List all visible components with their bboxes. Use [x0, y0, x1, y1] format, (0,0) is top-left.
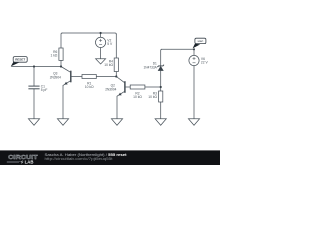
- wire C1 bottom to ground: [33, 89, 35, 119]
- ground under Q3 emitter: [57, 119, 68, 126]
- resistor R1: [82, 75, 96, 89]
- flag RESET: [11, 57, 27, 67]
- resistor R6: [51, 48, 64, 60]
- resistor R2: [130, 85, 145, 99]
- node junction R2/R3/D1: [160, 86, 162, 88]
- wire Q2 emitter to ground: [116, 96, 118, 119]
- node junction under R6: [60, 65, 62, 67]
- wire into V6 top: [193, 50, 195, 56]
- transistor Q2: [105, 77, 130, 97]
- svg-text:1 kΩ: 1 kΩ: [51, 53, 58, 57]
- wire D1 cathode up: [161, 49, 162, 65]
- wire top rail: [62, 33, 116, 34]
- svg-text:start: start: [197, 39, 203, 43]
- svg-text:2N3904: 2N3904: [105, 88, 116, 92]
- node junction under R4: [115, 75, 117, 77]
- wire R2 right to node: [145, 86, 161, 88]
- svg-text:2N3904: 2N3904: [50, 75, 61, 79]
- svg-text:10 kΩ: 10 kΩ: [85, 85, 94, 89]
- svg-text:http://circuitlab.com/c/7pjt5e: http://circuitlab.com/c/7pjt5euq55t: [45, 157, 113, 161]
- wire V2 bottom to ground: [100, 48, 102, 59]
- svg-text:1N4733A: 1N4733A: [144, 65, 158, 69]
- wire node to D1 anode: [160, 71, 162, 87]
- wire RESET net horizontal: [12, 66, 62, 68]
- wire below R4 to node: [115, 72, 117, 77]
- transistor Q3: [50, 67, 82, 86]
- wire V6 bottom to ground: [193, 66, 195, 119]
- wire top right horizontal: [162, 49, 195, 50]
- capacitor C1: [28, 85, 47, 92]
- node junction V2 at top rail: [100, 32, 102, 34]
- wire V2 top stub: [100, 33, 102, 37]
- voltage source V6: [189, 55, 209, 65]
- svg-text:RESET: RESET: [15, 58, 25, 62]
- footer logo squiggle lines: [7, 161, 22, 162]
- resistor R3: [148, 91, 163, 102]
- flag start: [193, 38, 206, 48]
- wire below R6: [60, 60, 62, 66]
- ground under C1: [28, 119, 39, 126]
- voltage source V2: [96, 37, 114, 47]
- svg-text:5 pF: 5 pF: [41, 88, 48, 92]
- footer logo bolt: [21, 160, 24, 165]
- wire node to R3 top: [160, 87, 162, 91]
- ground under Q2 emitter: [111, 119, 122, 126]
- wire C1 top: [33, 67, 35, 87]
- svg-text:10 kΩ: 10 kΩ: [104, 63, 113, 67]
- resistor R4: [104, 58, 118, 72]
- node junction on RESET wire at C1: [33, 65, 35, 67]
- wire right rail above R4: [115, 34, 117, 58]
- node junction top right corner: [193, 48, 195, 50]
- wire Q3 emitter to ground: [62, 85, 64, 118]
- svg-text:CIRCUIT: CIRCUIT: [8, 155, 38, 161]
- footer bar: [0, 150, 220, 165]
- svg-text:10 kΩ: 10 kΩ: [133, 95, 142, 99]
- ground under V6: [188, 119, 199, 126]
- ground under V2: [96, 59, 106, 64]
- wire left rail above R6: [61, 33, 62, 48]
- zener diode D1: [144, 62, 164, 71]
- svg-text:22 V: 22 V: [201, 61, 209, 65]
- svg-text:5 V: 5 V: [107, 42, 113, 46]
- svg-text:10 kΩ: 10 kΩ: [148, 95, 157, 99]
- ground under R3: [155, 119, 166, 126]
- svg-text:LAB: LAB: [25, 160, 34, 165]
- wire R1 right to node: [96, 76, 116, 78]
- wire R3 bottom to ground: [160, 102, 162, 119]
